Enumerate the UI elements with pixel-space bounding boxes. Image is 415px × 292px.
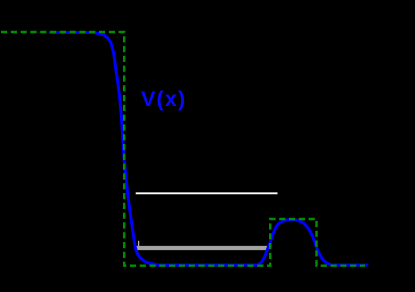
potential curve V(x): [50, 33, 367, 266]
svg-text:V(x): V(x): [141, 87, 186, 111]
white energy level line: [136, 192, 278, 194]
label V(x): [141, 87, 186, 111]
gray energy level bar: [135, 246, 267, 250]
gray tick above bar: [138, 241, 140, 246]
square-well dashed approximation: [1, 32, 365, 266]
